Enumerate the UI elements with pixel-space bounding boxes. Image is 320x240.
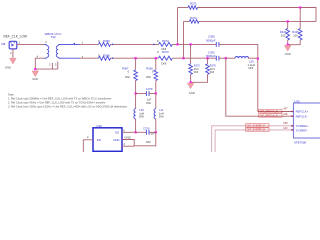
svg-text:5600pF: 5600pF (206, 54, 216, 58)
svg-text:SYSREF+: SYSREF+ (296, 124, 309, 128)
svg-text:GND: GND (189, 91, 195, 95)
svg-text:REF_CLK_LOW: REF_CLK_LOW (4, 35, 27, 39)
ground (R375/R376) (187, 83, 194, 89)
junction termination gnd (287, 44, 289, 46)
resistor R366 (154, 70, 158, 81)
wire J38 to T32 primary (17, 43, 44, 45)
pin dot REFCLK- (292, 116, 293, 117)
svg-text:T32: T32 (50, 35, 56, 39)
wire C376 right (149, 131, 156, 133)
junction row2 / R340 (287, 20, 289, 22)
svg-text:DNI: DNI (146, 101, 151, 105)
svg-text:OUT_REFCLK_M: OUT_REFCLK_M (260, 111, 278, 113)
wire R375 drop (190, 44, 192, 64)
junction SO wire / L40 (135, 131, 137, 133)
svg-text:GND: GND (5, 65, 11, 69)
wire row2 vertical from bottom line (183, 21, 185, 58)
wire T32 pin4 to ground bus (35, 58, 44, 69)
svg-text:DNI: DNI (139, 115, 144, 119)
pin dot SYSREF- (292, 129, 293, 130)
wire R367 to C379 (135, 81, 137, 94)
wire bottom diff line seg2 (111, 57, 159, 59)
wire L41 bottom (155, 119, 157, 132)
svg-text:DNI: DNI (162, 62, 167, 66)
wire U30 pin4 stub (122, 145, 134, 147)
resistor R375 (189, 64, 193, 75)
wire SYSREF_M (215, 130, 293, 152)
wire R376 drop (207, 58, 209, 64)
wire row2 horizontal (184, 20, 190, 22)
wire L36 left (226, 57, 235, 59)
wire R339 top (299, 8, 301, 29)
wire L41 top (155, 94, 157, 109)
IC U30 body (93, 128, 122, 152)
svg-text:DNI: DNI (146, 75, 151, 79)
wire R375 bottom (190, 74, 192, 82)
junction bottom line / R366 drop (155, 57, 157, 59)
svg-text:DNI: DNI (159, 115, 164, 119)
pin stub SYSREF- (291, 129, 294, 131)
svg-text:REFCLK-: REFCLK- (296, 114, 308, 118)
resistor R339 (298, 29, 302, 41)
resistor R340 (286, 29, 290, 41)
capacitor C380 (215, 42, 217, 47)
svg-text:1uF: 1uF (147, 98, 152, 102)
wire C379 right seg (149, 93, 156, 95)
wire row2 to right (199, 20, 316, 22)
wire top diff line seg2 (111, 43, 159, 45)
junction top line / R375 drop (190, 43, 192, 45)
junction L36 / REFCLK_M vertical (257, 58, 259, 60)
junction bottom line / R367 drop (135, 57, 137, 59)
transformer T32 primary winding (44, 44, 47, 45)
inductor L40 (134, 109, 136, 119)
wire J38 pin2 to ground (12, 49, 14, 59)
pin stub REFCLK+ (291, 111, 294, 113)
net flag OUT_SYSREF_P (246, 124, 269, 127)
wire R366 to C379 (155, 81, 157, 94)
pin stub REFCLK- (291, 115, 294, 117)
wire R340 top (287, 21, 289, 28)
wire L40 bottom (135, 119, 137, 132)
wire R339 bottom (288, 40, 301, 45)
ground (T32 center taps) (32, 71, 39, 77)
svg-text:R373: R373 (162, 39, 169, 43)
wire U30 PD to page edge (83, 140, 93, 152)
capacitor C392 (215, 56, 217, 61)
svg-text:GND: GND (32, 77, 38, 81)
svg-text:R370: R370 (162, 50, 169, 54)
svg-text:GND: GND (124, 136, 130, 140)
pin end marker R369 (112, 44, 113, 45)
junction T32 ground bus (34, 68, 36, 70)
svg-text:DNI: DNI (146, 140, 151, 144)
wire R376 bottom (191, 74, 208, 82)
pin stub SYSREF+ (291, 125, 294, 127)
wire REFCLK_P vertical (226, 58, 294, 116)
wire REFCLK_M horizontal (258, 111, 294, 113)
svg-text:OUT_SYSREF_M: OUT_SYSREF_M (247, 130, 266, 132)
junction top line / R371 drop (176, 43, 178, 45)
svg-text:DNI: DNI (210, 71, 215, 74)
svg-text:A07: A07 (283, 108, 288, 111)
ground (R339/R340) (284, 45, 291, 51)
junction C376 wire / L41 (155, 131, 157, 133)
resistor R368 (99, 56, 111, 60)
svg-text:1. Ref Clock upto 500MHz = Use: 1. Ref Clock upto 500MHz = Use REF_CLK_L… (8, 97, 112, 101)
junction bottom line / R372 drop (182, 57, 184, 59)
wire L36 right (248, 57, 258, 59)
wire bottom diff line seg1 (80, 57, 99, 59)
wire R366 drop (155, 58, 157, 70)
junction shunt gnd (190, 81, 192, 83)
svg-text:1uF: 1uF (150, 132, 155, 136)
junction REFCLK_P corner / L36 (225, 57, 227, 59)
wire bottom diff line to corner (219, 57, 226, 59)
polarity dot T32 (74, 43, 75, 44)
ground (J38) (10, 58, 17, 64)
junction C379 right (155, 92, 157, 94)
svg-text:R371: R371 (190, 1, 197, 5)
svg-text:OUT_REFCLK_P: OUT_REFCLK_P (260, 115, 278, 117)
wire L40 top (135, 94, 137, 109)
junction row1 / R339 (299, 6, 301, 8)
svg-text:Note:: Note: (8, 93, 15, 97)
resistor R369 (99, 42, 111, 46)
inductor L36 (235, 57, 249, 59)
svg-text:DNI: DNI (125, 75, 130, 79)
resistor R376 (206, 64, 210, 75)
capacitor C376 (145, 130, 147, 135)
svg-text:K08: K08 (283, 123, 288, 125)
svg-text:SYSREF-: SYSREF- (296, 129, 308, 133)
wire row1 vertical from top line (177, 8, 179, 45)
svg-text:GND: GND (285, 52, 291, 56)
wire top diff line seg1 (80, 43, 99, 45)
junction C379 left (135, 92, 137, 94)
svg-text:REFCLK+: REFCLK+ (296, 110, 309, 114)
svg-text:PD: PD (97, 138, 101, 142)
wire T32 ground bus (35, 68, 58, 70)
wire R367 drop (135, 58, 137, 70)
wire C379 left seg (136, 93, 147, 95)
net flag OUT_REFCLK_M (259, 110, 282, 113)
inductor L41 (154, 109, 156, 119)
svg-text:5600pF: 5600pF (206, 39, 216, 43)
wire T32 tap stub A (51, 63, 53, 69)
svg-text:OUT_SYSREF_P: OUT_SYSREF_P (247, 125, 266, 127)
net flag OUT_SYSREF_M (246, 128, 269, 131)
svg-text:J38: J38 (1, 42, 6, 46)
wire T32 tap stub B (57, 62, 59, 70)
pin dot REFCLK+ (292, 111, 293, 112)
wire top diff line seg3 (172, 43, 216, 45)
svg-text:GND: GND (113, 138, 119, 142)
pin dot SYSREF+ (292, 125, 293, 126)
wire SYSREF_P (212, 126, 294, 152)
wire U30 SO output (122, 131, 146, 133)
svg-text:100: 100 (293, 34, 298, 38)
junction bottom line / R376 drop (206, 57, 208, 59)
svg-text:100: 100 (281, 34, 286, 38)
wire row1 to right corner (198, 8, 317, 22)
svg-text:DNI: DNI (194, 71, 199, 74)
pin end marker R368 (112, 58, 113, 59)
wire top diff line seg4 to corner (219, 44, 258, 111)
transformer T32 secondary winding (58, 44, 79, 45)
resistor R371 (188, 6, 198, 10)
IC U3C body (AFE7900) (294, 103, 320, 138)
svg-text:3. Ref Clock from 3GHz upto 12: 3. Ref Clock from 3GHz upto 12GHz = Use … (8, 105, 128, 109)
net flag OUT_REFCLK_P (259, 114, 282, 117)
resistor R367 (134, 70, 138, 81)
wire bottom diff line seg3 (172, 57, 216, 59)
resistor R372 (189, 20, 199, 24)
connector J38 (SMA) (9, 41, 17, 49)
wire U30 GND pin (122, 132, 156, 146)
resistor R373 (series DNI) (159, 42, 173, 46)
svg-text:2. Ref Clock upto 4GHz = Use R: 2. Ref Clock upto 4GHz = Use REF_CLK_LOW… (8, 101, 106, 105)
wire row1 horizontal (178, 7, 189, 9)
capacitor C379 (145, 91, 147, 96)
wire R340 bottom (287, 40, 289, 45)
svg-text:AFE7900: AFE7900 (294, 140, 306, 144)
svg-text:DNI: DNI (249, 66, 254, 70)
pin end marker R373 (153, 44, 154, 45)
resistor R370 (series DNI) (159, 56, 173, 60)
svg-text:C379: C379 (146, 87, 153, 91)
